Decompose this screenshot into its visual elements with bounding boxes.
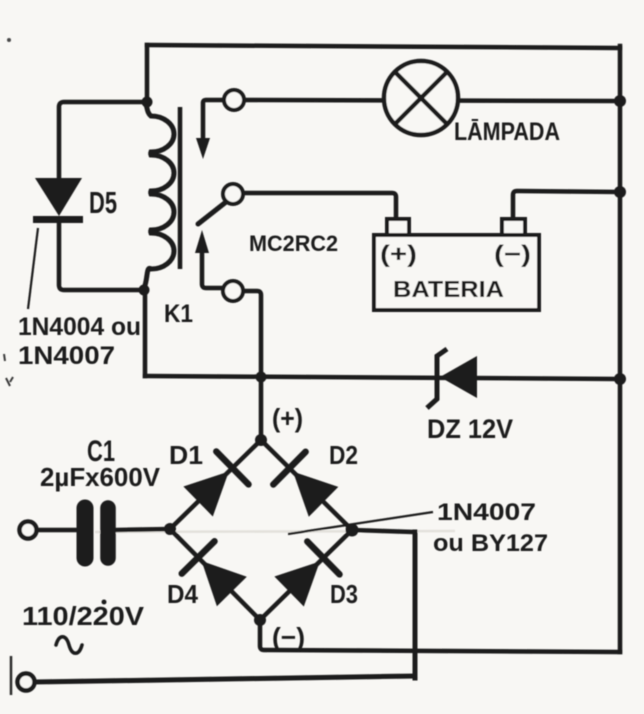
arrow up (NO): [195, 230, 209, 253]
svg-text:(−): (−): [494, 241, 531, 268]
node bridge top: [255, 434, 267, 446]
wire top rail: [147, 45, 620, 48]
wire AC2 bottom run: [35, 676, 415, 682]
relay common contact terminal: [223, 184, 243, 204]
node lamp right: [614, 95, 626, 107]
arrow down (NC): [196, 138, 210, 159]
wire bridge minus to right edge: [260, 620, 620, 652]
svg-text:DZ 12V: DZ 12V: [427, 414, 513, 444]
svg-text:K1: K1: [164, 300, 193, 328]
dot artifact over 220V: [102, 600, 107, 605]
svg-text:D2: D2: [329, 440, 358, 470]
lamp: [384, 61, 458, 135]
svg-text:LĀMPADA: LĀMPADA: [454, 118, 560, 146]
wire NO contact to plus junction: [243, 291, 261, 377]
relay coil K1: [144, 100, 174, 288]
wire bridge right node to AC2 vertical: [352, 530, 415, 532]
node coil top: [142, 97, 153, 108]
battery terminal minus post: [502, 219, 525, 235]
diode D5: [33, 178, 83, 220]
diode D4: [182, 541, 247, 606]
diode D3: [274, 542, 339, 607]
wire top rail drop to coil: [145, 45, 150, 102]
wire NC contact lead with arrow: [203, 100, 226, 140]
wire capacitor to bridge left node: [115, 529, 170, 530]
diode D1: [183, 452, 248, 517]
wire bridge plus stem: [259, 377, 264, 440]
svg-text:1N4007: 1N4007: [437, 499, 536, 526]
svg-text:(−): (−): [272, 622, 305, 652]
annotation line to bridge: [288, 512, 433, 534]
terminal AC1: [20, 522, 37, 539]
svg-text:(+): (+): [272, 403, 303, 433]
AC sine symbol: [56, 637, 82, 654]
svg-text:D3: D3: [330, 579, 358, 609]
relay NO contact terminal: [223, 281, 243, 301]
wire zener rail: [145, 376, 620, 379]
svg-text:1N4007: 1N4007: [18, 342, 115, 370]
wire NO contact arrow lead: [202, 250, 224, 288]
terminal AC2: [18, 674, 35, 691]
node bridge left: [164, 523, 176, 535]
battery body: [374, 235, 539, 310]
stray scan mark left margin: [4, 354, 13, 386]
svg-text:BATERIA: BATERIA: [393, 276, 504, 302]
wire common contact to battery plus: [243, 193, 396, 220]
wire bridge edges: [170, 440, 352, 620]
svg-text:D5: D5: [89, 185, 117, 220]
wire battery minus to right edge: [513, 191, 620, 220]
svg-text:MC2RC2: MC2RC2: [249, 231, 338, 256]
node coil bottom: [139, 285, 150, 296]
battery terminal plus post: [387, 219, 409, 235]
svg-text:(+): (+): [380, 241, 417, 268]
stray scan mark bottom left: [10, 656, 13, 695]
annotation line to D5: [28, 228, 38, 309]
svg-text:1N4004 ou: 1N4004 ou: [18, 313, 141, 341]
svg-text:2µFx600V: 2µFx600V: [40, 462, 161, 492]
svg-text:110/220V: 110/220V: [22, 601, 145, 631]
relay NC contact terminal: [224, 90, 244, 110]
diode D2: [273, 452, 338, 517]
wire right edge: [618, 46, 623, 652]
node bridge right: [346, 524, 359, 537]
svg-text:D1: D1: [169, 440, 203, 470]
relay core bar: [178, 107, 183, 269]
node bridge bottom: [254, 614, 266, 626]
node plus junction: [256, 372, 267, 383]
relay armature lever: [198, 202, 226, 224]
wire AC2 vertical: [413, 532, 418, 678]
svg-text:D4: D4: [167, 579, 198, 609]
node battery minus right: [614, 186, 626, 198]
wire D5 bottom lead: [59, 222, 144, 290]
capacitor C1: [85, 508, 108, 558]
svg-text:ou BY127: ou BY127: [433, 530, 548, 557]
node zener right: [614, 373, 626, 385]
wire lamp line: [243, 100, 620, 101]
zener diode DZ: [427, 349, 477, 408]
wire AC1 terminal to capacitor: [36, 528, 78, 533]
wire coil bottom to zener rail: [143, 290, 148, 376]
wire D5 top lead: [59, 102, 147, 179]
